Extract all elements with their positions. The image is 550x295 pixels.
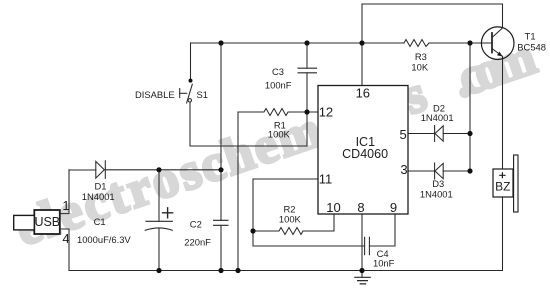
wire pin16 riser bbox=[361, 4, 363, 85]
capacitor C3 bbox=[298, 68, 317, 73]
wire V+ horizontal y=170 bbox=[69, 169, 96, 171]
wire D2 to node bbox=[443, 133, 470, 135]
node gnd pin8 bbox=[359, 268, 364, 273]
wire C4 to pin 9 bbox=[369, 214, 395, 246]
capacitor C1 bbox=[146, 220, 172, 222]
wire V+ rail y=43 left segment bbox=[191, 42, 405, 44]
wire S1 upper bbox=[190, 43, 192, 80]
wire D3 to node bbox=[443, 170, 470, 172]
svg-text:100K: 100K bbox=[268, 129, 291, 140]
diode D3 bbox=[434, 163, 436, 179]
node S1 contact bbox=[189, 79, 193, 83]
wire pin 11 bbox=[253, 179, 318, 231]
svg-text:BC548: BC548 bbox=[517, 42, 546, 53]
svg-text:C2: C2 bbox=[190, 219, 202, 230]
node R2-pin11 bbox=[250, 228, 255, 233]
wire C3 top bbox=[306, 43, 308, 68]
transistor T1 base bar bbox=[491, 33, 493, 53]
USB plug tab bbox=[14, 215, 35, 230]
svg-text:5: 5 bbox=[400, 127, 407, 142]
svg-text:C3: C3 bbox=[272, 66, 284, 77]
switch S1 bbox=[187, 84, 193, 103]
svg-text:1N4001: 1N4001 bbox=[82, 191, 115, 202]
svg-text:BZ: BZ bbox=[495, 180, 510, 194]
svg-text:S1: S1 bbox=[197, 89, 208, 100]
node gnd C1 bbox=[156, 268, 161, 273]
USB body box bbox=[34, 210, 60, 234]
svg-text:D1: D1 bbox=[95, 181, 107, 192]
node gnd R1 bbox=[235, 268, 240, 273]
svg-text:220nF: 220nF bbox=[184, 237, 211, 248]
svg-text:4: 4 bbox=[62, 231, 69, 246]
buzzer plus sign bbox=[499, 172, 505, 178]
wire V+ riser x=221 bbox=[220, 43, 222, 220]
USB pin 1 wire bbox=[60, 170, 69, 214]
wire node to C4 bbox=[253, 231, 365, 246]
svg-text:T1: T1 bbox=[525, 30, 536, 41]
wire pin 3 bbox=[407, 170, 435, 172]
svg-text:10K: 10K bbox=[411, 61, 428, 72]
node C1 top bbox=[156, 167, 161, 172]
transistor T1 collector bbox=[492, 28, 503, 38]
wire pin 5 bbox=[407, 133, 435, 135]
wire R1 ground riser bbox=[237, 112, 239, 271]
ground symbol bbox=[361, 271, 363, 278]
svg-text:12: 12 bbox=[319, 105, 333, 120]
USB pin 4 wire bbox=[60, 229, 69, 271]
transistor T1 circle bbox=[481, 27, 514, 60]
transistor T1 emitter bbox=[492, 49, 503, 57]
wire collector riser bbox=[502, 4, 504, 28]
svg-text:3: 3 bbox=[400, 162, 407, 177]
svg-text:1N4001: 1N4001 bbox=[420, 188, 453, 199]
node rail-x221 bbox=[218, 40, 223, 45]
svg-text:CD4060: CD4060 bbox=[342, 147, 388, 161]
node D3 cathode bbox=[467, 168, 472, 173]
svg-text:1: 1 bbox=[62, 198, 69, 213]
resistor R2 bbox=[253, 228, 334, 235]
wire C2 bottom bbox=[220, 225, 222, 270]
node gnd C2 bbox=[218, 268, 223, 273]
watermark electroschematics.com bbox=[23, 21, 550, 246]
svg-text:16: 16 bbox=[356, 86, 370, 101]
wire V+ rail y=43 right segment bbox=[429, 42, 492, 44]
svg-text:11: 11 bbox=[319, 172, 333, 187]
wire top rail upper bbox=[362, 3, 503, 5]
wire emitter to buzzer bbox=[502, 56, 504, 169]
capacitor C4 bbox=[365, 237, 370, 254]
svg-text:C1: C1 bbox=[94, 216, 106, 227]
svg-text:100nF: 100nF bbox=[265, 80, 292, 91]
capacitor C2 bbox=[214, 220, 229, 225]
wire buzzer to ground rail bbox=[502, 197, 504, 271]
svg-text:9: 9 bbox=[390, 200, 397, 215]
wire pin 8 ground bbox=[361, 214, 363, 271]
wire D1 to C2 node bbox=[105, 169, 221, 171]
svg-text:8: 8 bbox=[357, 200, 364, 215]
wire C3 bottom to node bbox=[306, 73, 308, 146]
svg-text:1N4001: 1N4001 bbox=[421, 112, 454, 123]
node C2 top bbox=[218, 167, 223, 172]
svg-text:USB: USB bbox=[34, 215, 60, 229]
wire diode node riser bbox=[469, 43, 471, 171]
svg-text:10nF: 10nF bbox=[373, 257, 395, 268]
buzzer BZ box bbox=[493, 169, 513, 197]
wire C1 bottom bbox=[158, 228, 160, 271]
svg-text:DISABLE: DISABLE bbox=[135, 89, 175, 100]
node rail-diodes bbox=[467, 40, 472, 45]
svg-text:1000uF/6.3V: 1000uF/6.3V bbox=[77, 234, 131, 245]
svg-text:100K: 100K bbox=[279, 214, 302, 225]
node rail-pin16 bbox=[359, 40, 364, 45]
svg-text:10: 10 bbox=[326, 200, 340, 215]
wire pin 10 riser bbox=[333, 214, 335, 231]
resistor R3 bbox=[404, 40, 429, 47]
buzzer BZ plate bbox=[514, 155, 518, 212]
wire S1 lower bbox=[190, 103, 307, 147]
transistor T1 emitter arrow bbox=[497, 52, 503, 57]
resistor R1 bbox=[238, 109, 318, 116]
capacitor C1 plus sign bbox=[163, 208, 173, 218]
node D2 cathode bbox=[467, 131, 472, 136]
diode D2 bbox=[434, 126, 436, 142]
node rail-C3 bbox=[304, 40, 309, 45]
wire C1 top bbox=[158, 170, 160, 222]
diode D1 bbox=[96, 161, 105, 178]
wire bottom ground rail bbox=[69, 270, 503, 272]
node R1-C3-pin12 bbox=[304, 109, 309, 114]
IC1 box bbox=[318, 86, 408, 215]
